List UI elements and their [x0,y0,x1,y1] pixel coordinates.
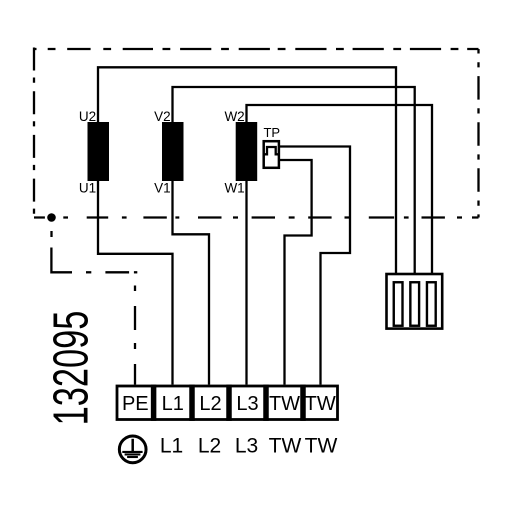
wire W1 to terminal L3 [245,181,247,385]
svg-text:L3: L3 [235,434,258,457]
junction dot [47,213,56,222]
terminal divider 5 [300,385,306,421]
svg-text:W1: W1 [224,180,244,195]
svg-text:L1: L1 [162,393,184,415]
enclosure dash-dot boundary [34,48,479,218]
connector slot 1 [394,282,403,326]
wire TP bottom to terminal TW1 [280,160,312,385]
connector slot 3 [427,282,436,326]
terminal strip [117,385,338,421]
PE dash-dot wire [51,231,137,385]
svg-text:L3: L3 [236,393,258,415]
svg-text:L2: L2 [199,393,221,415]
svg-text:V1: V1 [154,180,171,195]
connector plug [387,274,443,329]
wire V1 to terminal L2 [173,181,210,385]
svg-text:132095: 132095 [43,311,99,426]
svg-text:U1: U1 [79,180,96,195]
svg-text:TW: TW [305,393,336,415]
wire U2 to connector pin1 [98,67,396,274]
protective earth symbol [119,436,146,463]
terminal divider 2 [189,385,195,421]
terminal divider 4 [263,385,269,421]
wire V2 to connector pin2 [173,87,415,274]
connector slot 2 [410,282,419,326]
wire TP top to terminal TW2 [280,147,350,385]
svg-text:U2: U2 [79,109,96,124]
motor winding V1-V2 [162,122,184,181]
svg-text:V2: V2 [154,109,171,124]
terminal divider 3 [226,385,232,421]
terminal divider 1 [151,385,157,421]
wire W2 to connector pin3 [247,105,433,274]
motor winding U1-U2 [88,122,110,181]
thermal contact TP [263,125,280,168]
svg-text:TW: TW [305,434,338,457]
svg-text:W2: W2 [224,109,244,124]
svg-text:TP: TP [263,125,280,140]
wire U1 to terminal L1 [98,181,173,385]
svg-text:L1: L1 [160,434,183,457]
svg-text:L2: L2 [198,434,221,457]
svg-text:TW: TW [269,393,300,415]
motor winding W1-W2 [236,122,258,181]
svg-text:PE: PE [122,393,149,415]
svg-text:TW: TW [269,434,302,457]
